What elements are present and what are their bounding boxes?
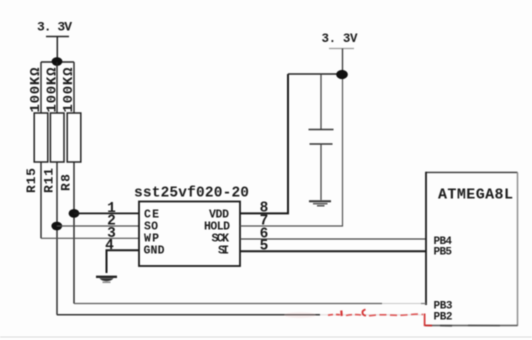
svg-text:100KΩ: 100KΩ: [28, 67, 44, 113]
ground (capacitor): [309, 201, 331, 206]
svg-text:3. 3V: 3. 3V: [322, 32, 358, 46]
node: junction dot at 3.3V rail: [52, 57, 63, 66]
wire: pin3 WP: [41, 237, 139, 239]
svg-text:SI: SI: [218, 245, 229, 258]
node: junction dot SO/R11: [51, 222, 62, 231]
svg-text:SCK: SCK: [212, 233, 230, 246]
svg-text:GND: GND: [144, 245, 165, 258]
svg-text:R15: R15: [24, 168, 39, 193]
faint bottom rule: [0, 336, 532, 338]
node: junction dot CE/R8: [69, 209, 80, 218]
IC U2: ATMEGA8L box: [425, 172, 518, 326]
svg-text:PB5: PB5: [434, 247, 453, 259]
svg-text:PB2: PB2: [434, 312, 453, 324]
wire: R11 line down to PB2 bus: [57, 314, 320, 316]
wire: pin5 SI to PB5: [240, 250, 426, 252]
wire: pin1 CE: [74, 212, 139, 214]
wire: R8 line down to PB3 bus: [74, 303, 382, 305]
node: junction dot right 3.3V: [336, 70, 348, 79]
svg-text:4: 4: [105, 238, 114, 254]
capacitor C1: [309, 74, 334, 200]
wire: pin7 HOLD to 3.3V: [240, 74, 343, 226]
svg-text:3. 3V: 3. 3V: [37, 20, 72, 35]
svg-text:ATMEGA8L: ATMEGA8L: [438, 187, 513, 204]
watermark red strokes: [284, 310, 500, 326]
wire: pin2 SO: [57, 225, 139, 227]
resistor R8 (100K): [67, 62, 81, 304]
wire: pin4 GND: [107, 250, 140, 273]
power 3.3V (left) label: [37, 20, 72, 37]
wire: pin8 VDD to 3.3V rail: [240, 74, 288, 213]
power 3.3V (right) label: [322, 32, 358, 74]
wire: top bus joining resistor tops: [41, 61, 74, 63]
wire: 3.3V stem to node: [56, 37, 58, 62]
svg-text:100KΩ: 100KΩ: [45, 67, 61, 113]
ground (pin 4): [96, 277, 117, 283]
svg-text:sst25vf020-20: sst25vf020-20: [134, 186, 249, 202]
op-amp U1: IC sst25vf020-20 box: [139, 202, 240, 267]
wire: 3.3V right rail horizontal: [288, 73, 343, 75]
resistor R11 (100K): [50, 62, 64, 315]
svg-text:WP: WP: [144, 233, 159, 246]
svg-text:R8: R8: [59, 174, 74, 191]
wire: pin6 SCK to PB4: [240, 238, 426, 240]
svg-text:R11: R11: [42, 168, 57, 193]
svg-text:100KΩ: 100KΩ: [61, 67, 77, 113]
resistor R15 (100K): [34, 62, 48, 238]
